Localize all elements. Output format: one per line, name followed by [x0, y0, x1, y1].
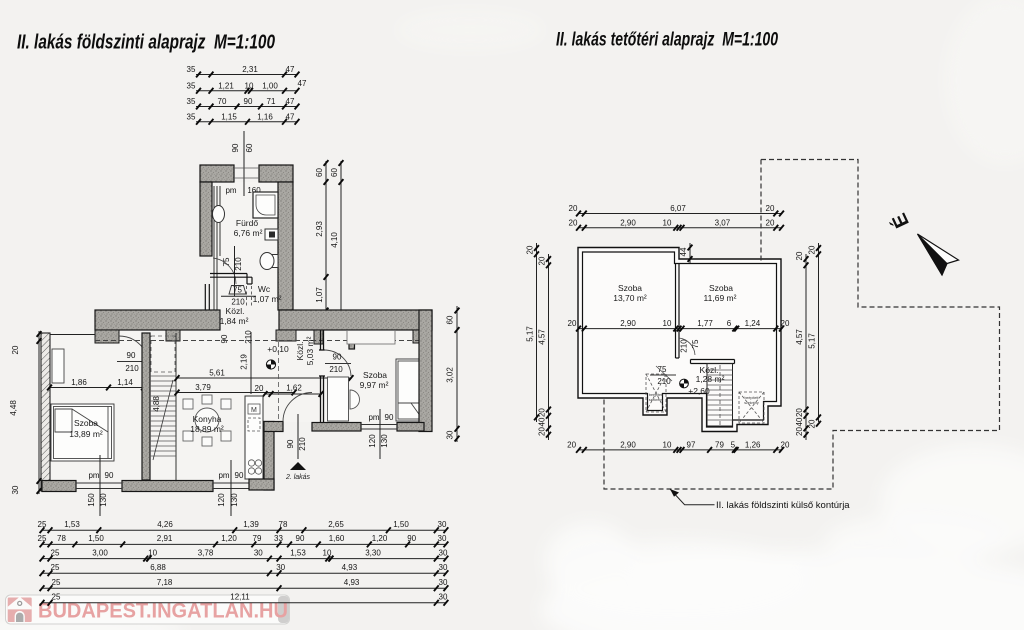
floor interior fill tower: [212, 182, 278, 310]
stair wall: [142, 333, 150, 480]
svg-text:20: 20: [795, 251, 804, 260]
svg-text:210: 210: [125, 364, 139, 373]
svg-text:1,16: 1,16: [257, 112, 273, 121]
svg-text:44: 44: [679, 247, 688, 256]
svg-text:4,88: 4,88: [152, 396, 161, 412]
svg-text:18,89 m²: 18,89 m²: [190, 424, 224, 434]
svg-text:210: 210: [329, 365, 343, 374]
svg-text:1,50: 1,50: [393, 520, 409, 529]
svg-text:20: 20: [781, 440, 790, 449]
svg-text:2,90: 2,90: [620, 319, 636, 328]
attic middle dim row (20/2,90/10/1,77/6/1,24/20): [568, 319, 790, 331]
svg-text:4,48: 4,48: [9, 400, 18, 416]
svg-text:3,02: 3,02: [446, 367, 455, 383]
svg-text:25: 25: [38, 520, 47, 529]
svg-text:2,90: 2,90: [620, 440, 636, 449]
svg-text:30: 30: [439, 578, 448, 587]
top dim chain row 4 (35/1,15/1,16/47): [187, 112, 300, 124]
svg-text:130: 130: [230, 493, 239, 507]
svg-text:30: 30: [438, 534, 447, 543]
chair right room: [350, 390, 360, 409]
svg-text:30: 30: [11, 485, 20, 494]
svg-text:90: 90: [286, 439, 295, 448]
svg-text:5,61: 5,61: [209, 369, 225, 378]
svg-text:3,07: 3,07: [715, 218, 731, 227]
svg-text:47: 47: [298, 79, 307, 88]
dim 5,61: [175, 369, 354, 381]
svg-text:20: 20: [255, 384, 264, 393]
svg-text:szekrény: szekrény: [744, 401, 759, 405]
svg-text:90: 90: [105, 471, 114, 480]
svg-text:13,70 m²: 13,70 m²: [613, 293, 647, 303]
svg-text:120: 120: [368, 434, 377, 448]
svg-text:30: 30: [438, 520, 447, 529]
svg-text:II. lakás földszinti alaprajz: II. lakás földszinti alaprajz M=1:100: [17, 32, 275, 54]
svg-text:210: 210: [244, 330, 253, 344]
svg-text:120: 120: [217, 493, 226, 507]
svg-text:78: 78: [57, 534, 66, 543]
svg-text:4,57: 4,57: [538, 329, 547, 345]
svg-text:1,20: 1,20: [372, 534, 388, 543]
door 90/210 right room: [324, 350, 351, 376]
svg-text:20: 20: [808, 245, 817, 254]
svg-text:6: 6: [727, 319, 732, 328]
entry door arc: [283, 393, 312, 422]
attic right dim column 3 (20/4,57/20/40/20): [795, 251, 808, 440]
svg-text:90: 90: [385, 413, 394, 422]
svg-text:4,10: 4,10: [330, 232, 339, 248]
svg-text:210: 210: [657, 377, 671, 386]
svg-text:1,86: 1,86: [71, 378, 87, 387]
divider wall Fürdő/Wc: [210, 274, 252, 285]
top dim chain row 2 (35/1,21/10/1,00/47): [187, 79, 307, 94]
svg-text:1,00: 1,00: [262, 81, 278, 90]
svg-text:47: 47: [286, 65, 295, 74]
svg-text:20: 20: [569, 218, 578, 227]
svg-text:30: 30: [439, 548, 448, 557]
corridor dashed boundary: [278, 342, 280, 420]
svg-text:40: 40: [795, 417, 804, 426]
svg-text:1,14: 1,14: [117, 378, 133, 387]
svg-text:7,18: 7,18: [157, 578, 173, 587]
svg-text:Szoba: Szoba: [363, 370, 387, 380]
svg-text:Szoba: Szoba: [74, 418, 98, 428]
ground floor contour dashed outline: [604, 160, 1000, 490]
bottom dim chain row2: [38, 534, 449, 547]
left dim column (20/4,48/30): [9, 331, 41, 494]
svg-text:Konyha: Konyha: [193, 414, 222, 424]
bottom dim chain row6: [40, 593, 449, 606]
svg-text:47: 47: [286, 97, 295, 106]
svg-text:20: 20: [569, 204, 578, 213]
svg-text:60: 60: [315, 168, 324, 177]
svg-text:1,07 m²: 1,07 m²: [253, 294, 282, 304]
attic top dim row 2 (20/2,90/10/3,07/20): [569, 218, 784, 230]
right dim column (60/3,02/30): [446, 306, 460, 442]
svg-text:20: 20: [538, 427, 547, 436]
staircase: [150, 333, 176, 480]
bathroom interior shaft lines: [214, 186, 220, 316]
svg-text:30: 30: [439, 593, 448, 602]
bathroom tower walls: [200, 165, 293, 310]
svg-text:1,53: 1,53: [64, 520, 80, 529]
svg-text:Közl.: Közl.: [226, 306, 245, 316]
main top wall band left: [95, 310, 220, 330]
svg-text:20: 20: [795, 408, 804, 417]
svg-text:90: 90: [235, 471, 244, 480]
svg-text:1,62: 1,62: [286, 384, 302, 393]
svg-text:1,21: 1,21: [218, 81, 234, 90]
left outer hatched wall: [41, 333, 95, 491]
window pm90 left room: [76, 455, 122, 516]
svg-text:12,11: 12,11: [230, 593, 250, 602]
main top wall band right: [279, 310, 432, 330]
svg-text:130: 130: [99, 493, 108, 507]
svg-text:1,53: 1,53: [290, 548, 306, 557]
svg-text:71: 71: [267, 97, 276, 106]
svg-text:60: 60: [446, 315, 455, 324]
svg-text:1,20: 1,20: [221, 534, 237, 543]
svg-text:70: 70: [218, 97, 227, 106]
svg-text:beépített: beépített: [649, 393, 663, 397]
svg-text:30: 30: [439, 563, 448, 572]
corridor dashed line: [95, 340, 427, 342]
svg-text:25: 25: [51, 548, 60, 557]
svg-text:3,78: 3,78: [198, 548, 214, 557]
bottom dim chain row3: [40, 548, 449, 561]
svg-text:1,24: 1,24: [745, 319, 761, 328]
svg-text:10: 10: [245, 81, 254, 90]
entry arrow 2. lakás: [285, 462, 311, 481]
north arrow: [887, 210, 958, 275]
svg-text:30: 30: [446, 430, 455, 439]
svg-text:4,57: 4,57: [795, 329, 804, 345]
svg-text:1,15: 1,15: [221, 112, 237, 121]
svg-text:Szoba: Szoba: [618, 283, 642, 293]
svg-text:35: 35: [187, 65, 196, 74]
washing machine a: [265, 229, 278, 240]
window pm90 right room: [361, 409, 397, 459]
svg-text:10: 10: [663, 218, 672, 227]
desk right room: [328, 377, 349, 421]
attic staircase: [707, 364, 733, 427]
svg-text:20: 20: [568, 319, 577, 328]
svg-text:2,31: 2,31: [242, 65, 258, 74]
svg-text:35: 35: [187, 97, 196, 106]
attic left dim column 2 (20/4,57/20/40/20): [538, 254, 551, 440]
shower tray: [253, 192, 278, 218]
right outer wall: [419, 310, 432, 432]
dim 20 / 1,62: [255, 384, 324, 397]
svg-text:25: 25: [38, 534, 47, 543]
svg-text:pm: pm: [225, 186, 236, 195]
bed left room: [51, 404, 114, 461]
svg-text:30: 30: [254, 548, 263, 557]
svg-text:20: 20: [11, 345, 20, 354]
svg-text:3,79: 3,79: [195, 383, 211, 392]
top dim chain row 1 (35/2,31/47): [187, 65, 300, 77]
attic built-in wardrobe left: [646, 374, 666, 412]
svg-text:1,77: 1,77: [697, 319, 713, 328]
wardrobe left room: [52, 349, 64, 383]
wall pillar stubs below band: [95, 330, 432, 344]
attic divider wall: [676, 264, 680, 359]
dim 3,79: [175, 383, 297, 395]
svg-text:25: 25: [52, 593, 61, 602]
svg-text:2,19: 2,19: [240, 354, 249, 370]
svg-text:10: 10: [148, 548, 157, 557]
svg-text:20: 20: [781, 319, 790, 328]
svg-text:210: 210: [298, 437, 307, 451]
toilet: [260, 253, 278, 270]
attic left dim column 1 (20/5,17): [526, 243, 539, 422]
dim 2,19 rotated: [240, 332, 252, 394]
svg-text:5: 5: [731, 440, 736, 449]
svg-text:beépített: beépített: [745, 396, 759, 400]
svg-text:5,03 m²: 5,03 m²: [305, 336, 315, 365]
svg-text:210: 210: [234, 257, 243, 271]
attic built-in wardrobe right: [739, 392, 764, 423]
attic door 75/210 lower: [650, 365, 676, 386]
svg-text:35: 35: [187, 81, 196, 90]
svg-text:Wc: Wc: [258, 284, 271, 294]
door 90/210 left room: [117, 336, 149, 373]
svg-text:2,65: 2,65: [328, 520, 344, 529]
svg-text:90: 90: [296, 534, 305, 543]
svg-text:II. lakás földszinti külső kon: II. lakás földszinti külső kontúrja: [716, 500, 850, 511]
svg-text:1,26: 1,26: [745, 440, 761, 449]
svg-text:79: 79: [253, 534, 262, 543]
svg-text:3,00: 3,00: [92, 548, 108, 557]
svg-text:szekrény: szekrény: [649, 398, 664, 402]
kitchen table and chairs: [183, 395, 231, 446]
svg-text:20: 20: [795, 427, 804, 436]
bottom dim chain row4: [40, 563, 449, 576]
svg-text:75: 75: [658, 365, 667, 374]
svg-text:20: 20: [567, 440, 576, 449]
window axis line above bathroom: [231, 131, 254, 196]
svg-text:150: 150: [87, 493, 96, 507]
svg-text:5,17: 5,17: [808, 333, 817, 349]
svg-text:Közl.: Közl.: [295, 342, 305, 361]
entry vestibule wall: [264, 422, 274, 491]
svg-text:13,89 m²: 13,89 m²: [69, 429, 103, 439]
svg-text:4,26: 4,26: [157, 520, 173, 529]
watermark bar: [6, 595, 290, 624]
svg-text:2,91: 2,91: [157, 534, 173, 543]
svg-text:pm: pm: [218, 471, 229, 480]
svg-text:90: 90: [407, 534, 416, 543]
svg-text:1,39: 1,39: [243, 520, 259, 529]
svg-text:97: 97: [687, 440, 696, 449]
attic Közl top wall: [691, 360, 735, 364]
tower right dim column A (60/2,93/1,07/10): [314, 160, 328, 321]
bed right room: [396, 359, 423, 421]
svg-text:20: 20: [526, 245, 535, 254]
wardrobe under top wall right room: [347, 331, 395, 345]
contour label leader: [670, 489, 850, 511]
svg-text:II. lakás tetőtéri alaprajz M: II. lakás tetőtéri alaprajz M=1:100: [556, 30, 778, 51]
washbasin: [213, 206, 225, 223]
svg-text:47: 47: [286, 112, 295, 121]
svg-text:10: 10: [663, 440, 672, 449]
svg-text:78: 78: [279, 520, 288, 529]
attic outline outer wall: [578, 248, 781, 432]
svg-text:90: 90: [333, 353, 342, 362]
Wc door 75/210 labels: [221, 286, 256, 307]
svg-text:6,07: 6,07: [670, 204, 686, 213]
bottom dim chain row5: [40, 578, 449, 591]
tower right dim column B (60/4,10): [330, 160, 343, 318]
attic level marker +2,60: [680, 379, 710, 396]
svg-text:4,93: 4,93: [342, 563, 358, 572]
bottom wall of right section: [312, 423, 361, 432]
svg-text:pm: pm: [88, 471, 99, 480]
svg-text:20: 20: [766, 204, 775, 213]
svg-text:40: 40: [538, 417, 547, 426]
svg-text:25: 25: [52, 578, 61, 587]
svg-text:25: 25: [51, 563, 60, 572]
svg-text:1,50: 1,50: [88, 534, 104, 543]
bottom dim chain row1: [38, 520, 449, 533]
top dim chain row 3 (35/70/90/71/47): [187, 97, 300, 109]
svg-text:2. lakás: 2. lakás: [285, 474, 311, 481]
floor interior fill right part: [264, 330, 419, 422]
svg-text:4,93: 4,93: [344, 578, 360, 587]
svg-text:60: 60: [245, 143, 254, 152]
kitchen counter strip: [245, 396, 263, 479]
svg-text:20: 20: [808, 419, 817, 428]
svg-text:2,93: 2,93: [315, 221, 324, 237]
svg-text:20: 20: [766, 218, 775, 227]
svg-text:11,69 m²: 11,69 m²: [704, 293, 737, 303]
svg-text:90: 90: [244, 97, 253, 106]
attic roof step dim 44: [679, 243, 692, 263]
svg-text:79: 79: [715, 440, 724, 449]
svg-text:20: 20: [538, 256, 547, 265]
svg-text:1,84 m²: 1,84 m²: [220, 316, 249, 326]
door hinge pilaster right room: [349, 331, 355, 350]
entry door 90/210 rotated labels: [286, 414, 307, 459]
attic bottom dim row (20/2,90/10/97/79/5/1,26/20): [567, 440, 790, 452]
svg-text:M: M: [251, 407, 257, 414]
svg-text:6,76 m²: 6,76 m²: [234, 228, 263, 238]
svg-text:pm: pm: [368, 413, 379, 422]
svg-text:60: 60: [330, 168, 339, 177]
svg-text:130: 130: [380, 434, 389, 448]
svg-text:1,07: 1,07: [315, 287, 324, 303]
bottom wall of main rooms: [42, 481, 76, 492]
divider wall Közl/Szoba right: [319, 330, 325, 423]
svg-text:75: 75: [233, 286, 242, 295]
dim 1,86 / 1,14: [47, 378, 146, 390]
svg-text:9,97 m²: 9,97 m²: [360, 380, 389, 390]
svg-text:Fürdő: Fürdő: [236, 218, 258, 228]
ground floor contour dashed stub at top: [760, 160, 762, 262]
svg-text:6,88: 6,88: [150, 563, 166, 572]
window pm90 kitchen: [217, 460, 244, 516]
watermark house icon: [8, 597, 32, 622]
bathroom door 75/210 labels: [213, 246, 243, 296]
svg-text:20: 20: [538, 408, 547, 417]
svg-text:90: 90: [220, 334, 229, 343]
svg-text:35: 35: [187, 112, 196, 121]
svg-text:10: 10: [323, 548, 332, 557]
svg-text:Szoba: Szoba: [709, 283, 733, 293]
attic top dim row 1 (20/6,07/20): [569, 204, 784, 216]
floor interior fill left part: [50, 330, 264, 481]
svg-text:90: 90: [127, 351, 136, 360]
attic right dim column 4 (20/5,17): [808, 243, 821, 428]
level marker +0,10: [266, 344, 289, 369]
svg-text:30: 30: [276, 563, 285, 572]
svg-text:2,90: 2,90: [620, 218, 636, 227]
dim 2,68 rotated: [244, 396, 256, 479]
attic outline inner wall line: [583, 252, 777, 427]
svg-text:10: 10: [663, 319, 672, 328]
svg-text:90: 90: [231, 143, 240, 152]
svg-text:3,30: 3,30: [365, 548, 381, 557]
svg-text:33: 33: [274, 534, 283, 543]
attic door 75/210 at divider top: [679, 338, 700, 355]
svg-text:1,60: 1,60: [329, 534, 345, 543]
svg-text:5,17: 5,17: [526, 326, 535, 342]
